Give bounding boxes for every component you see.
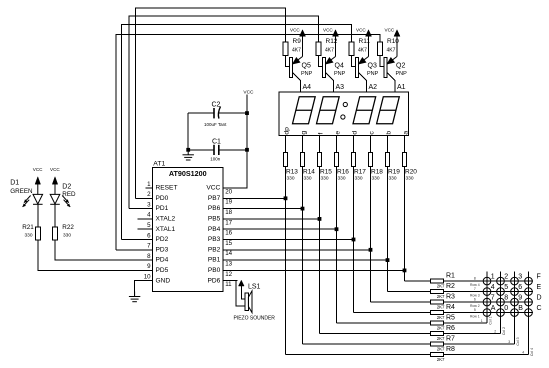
wire collector Q4 to display pin A3 <box>325 73 333 93</box>
svg-text:2K7: 2K7 <box>437 315 445 320</box>
junction PB1 <box>386 258 390 262</box>
svg-text:14: 14 <box>225 250 232 257</box>
junction PB4 <box>335 227 339 231</box>
capacitor C1 100n <box>188 149 213 151</box>
svg-text:330: 330 <box>304 175 312 181</box>
svg-text:20: 20 <box>225 188 232 195</box>
svg-text:R8: R8 <box>446 346 455 353</box>
svg-text:1: 1 <box>147 181 151 188</box>
svg-text:2: 2 <box>494 329 496 333</box>
svg-text:5: 5 <box>474 308 476 312</box>
svg-text:330: 330 <box>63 232 71 238</box>
svg-text:PB1: PB1 <box>208 257 221 264</box>
svg-text:R15: R15 <box>320 168 332 175</box>
svg-text:VCC: VCC <box>290 28 300 33</box>
svg-text:330: 330 <box>406 175 414 181</box>
svg-text:R3: R3 <box>446 294 455 301</box>
wire collector Q2 to display pin A1 <box>387 73 395 93</box>
svg-text:8: 8 <box>474 276 476 280</box>
svg-text:D: D <box>537 295 542 302</box>
wire display segment b down <box>387 136 389 153</box>
svg-text:Row 1: Row 1 <box>470 314 480 318</box>
wire GND pin 10 <box>135 281 153 297</box>
svg-text:VCC: VCC <box>33 167 43 172</box>
junction C1-VCC <box>245 148 249 152</box>
svg-text:18: 18 <box>225 209 232 216</box>
switch key 7 <box>483 298 491 306</box>
resistor R17 330 <box>351 153 355 167</box>
svg-text:GREEN: GREEN <box>10 188 33 195</box>
resistor R3 2K7 <box>430 300 443 304</box>
svg-text:a: a <box>403 131 410 135</box>
svg-text:13: 13 <box>225 261 232 268</box>
digit 8 outline <box>317 97 340 124</box>
wire display segment a down <box>404 136 406 153</box>
svg-text:10: 10 <box>144 274 151 281</box>
svg-text:3: 3 <box>508 340 510 344</box>
switch key 4 <box>483 288 491 296</box>
svg-text:2K7: 2K7 <box>437 336 445 341</box>
resistor R22 330 <box>53 227 58 240</box>
pin 4 XTAL2 <box>138 218 153 220</box>
wire PB7 to segment line <box>238 197 286 199</box>
wire PD3 (pin) to base resistor <box>116 249 153 251</box>
svg-text:5: 5 <box>147 222 151 229</box>
svg-text:R16: R16 <box>337 168 349 175</box>
svg-text:17: 17 <box>225 219 232 226</box>
svg-text:2K7: 2K7 <box>437 347 445 352</box>
svg-text:PB6: PB6 <box>208 205 221 212</box>
svg-text:VCC: VCC <box>206 185 220 192</box>
resistor R11 4K7 <box>349 42 354 56</box>
svg-text:C1: C1 <box>212 139 221 146</box>
resistor R21 330 <box>35 227 40 240</box>
svg-text:4K7: 4K7 <box>358 47 367 53</box>
resistor R19 330 <box>385 153 389 167</box>
svg-text:2K7: 2K7 <box>437 305 445 310</box>
svg-text:330: 330 <box>389 175 397 181</box>
svg-text:C: C <box>537 305 542 312</box>
wire R12 to base of Q4 <box>319 56 323 67</box>
wire D1 to R21 <box>37 204 39 227</box>
svg-text:PD2: PD2 <box>156 236 169 243</box>
pin 10 GND <box>138 280 153 282</box>
svg-text:VCC: VCC <box>323 28 333 33</box>
svg-text:R14: R14 <box>303 168 315 175</box>
svg-text:6: 6 <box>518 284 522 291</box>
wire keypad column 1 <box>444 322 488 324</box>
svg-text:6: 6 <box>474 297 476 301</box>
svg-text:PIEZO SOUNDER: PIEZO SOUNDER <box>234 316 276 322</box>
svg-text:R13: R13 <box>286 168 298 175</box>
wire display segment dp down <box>285 136 287 153</box>
svg-text:Col 2: Col 2 <box>502 327 506 335</box>
svg-text:B: B <box>518 305 523 312</box>
LED D2 RED <box>50 194 60 204</box>
pin 16 PB4 <box>223 228 238 230</box>
svg-text:e: e <box>335 131 342 135</box>
resistor R10 4K7 <box>378 42 383 56</box>
junction PB6 <box>301 207 305 211</box>
svg-text:GND: GND <box>156 277 171 284</box>
pin 3 PD1 <box>138 208 153 210</box>
svg-text:5: 5 <box>504 284 508 291</box>
svg-text:PB7: PB7 <box>208 195 221 202</box>
wire R17 to PB3 and keypad <box>353 167 355 313</box>
svg-text:Q2: Q2 <box>396 63 405 70</box>
svg-text:R5: R5 <box>446 315 455 322</box>
svg-text:b: b <box>386 131 393 135</box>
transistor Q3 PNP <box>356 58 359 78</box>
svg-text:Q4: Q4 <box>335 63 344 70</box>
wire R9 to base of Q5 <box>286 56 290 67</box>
wire display segment e down <box>336 136 338 153</box>
svg-text:R1: R1 <box>446 273 455 280</box>
resistor R9 4K7 <box>283 42 288 56</box>
wire collector Q5 to display pin A4 <box>292 73 300 93</box>
svg-text:A2: A2 <box>369 84 378 91</box>
svg-text:2K7: 2K7 <box>437 326 445 331</box>
pin 2 PD0 <box>138 197 153 199</box>
wire display segment d down <box>353 136 355 153</box>
junction C2-VCC <box>245 111 249 115</box>
svg-text:f: f <box>318 133 325 135</box>
resistor R12 4K7 <box>316 42 321 56</box>
svg-text:330: 330 <box>321 175 329 181</box>
switch key F <box>525 277 533 285</box>
svg-text:A4: A4 <box>303 84 312 91</box>
LED D1 GREEN <box>33 194 43 204</box>
svg-text:PD3: PD3 <box>156 246 169 253</box>
power VCC for piezo <box>239 280 245 286</box>
wire R21 to MCU <box>38 240 153 271</box>
wire PD6 to piezo <box>223 281 245 306</box>
wire PB6 to segment line <box>238 208 303 210</box>
wire display segment c down <box>370 136 372 153</box>
pin 15 PB3 <box>223 239 238 241</box>
wire R11 to base of Q3 <box>352 56 356 67</box>
svg-text:19: 19 <box>225 199 232 206</box>
wire C2 to C1/ground <box>187 113 189 150</box>
svg-text:A1: A1 <box>397 84 406 91</box>
svg-text:PB5: PB5 <box>208 216 221 223</box>
svg-text:PD1: PD1 <box>156 205 169 212</box>
capacitor C2 100uF Tant <box>188 112 213 114</box>
switch key 9 <box>511 298 519 306</box>
svg-text:PD6: PD6 <box>207 277 220 284</box>
wire keypad row 4 <box>444 312 534 314</box>
svg-text:R18: R18 <box>371 168 383 175</box>
svg-text:PB4: PB4 <box>208 226 221 233</box>
pin 7 PD3 <box>138 249 153 251</box>
pin 14 PB2 <box>223 249 238 251</box>
svg-text:1: 1 <box>481 319 483 323</box>
svg-text:7: 7 <box>474 287 476 291</box>
svg-text:8: 8 <box>147 253 151 260</box>
svg-text:R4: R4 <box>446 304 455 311</box>
wire PD0 (pin) to base resistor <box>136 197 153 199</box>
svg-text:g: g <box>301 131 308 135</box>
wire R18 to PB2 and keypad <box>370 167 372 303</box>
svg-text:100n: 100n <box>210 156 221 161</box>
svg-text:RED: RED <box>62 191 76 198</box>
wire R13 to PB7 and keypad <box>285 167 287 355</box>
ground near C1 <box>187 150 189 155</box>
svg-text:F: F <box>537 274 541 281</box>
piezo sounder LS1 <box>245 293 248 310</box>
svg-text:c: c <box>369 131 376 135</box>
wire PB5 to segment line <box>238 218 320 220</box>
pin 17 PB5 <box>223 218 238 220</box>
svg-text:AT90S1200: AT90S1200 <box>169 169 207 178</box>
svg-text:0: 0 <box>504 305 508 312</box>
transistor Q4 PNP <box>323 58 326 78</box>
svg-text:D1: D1 <box>10 180 19 187</box>
svg-text:2K7: 2K7 <box>437 357 445 362</box>
wire R14 to PB6 and keypad <box>302 167 304 345</box>
resistor R16 330 <box>334 153 338 167</box>
resistor R20 330 <box>402 153 406 167</box>
pin 20 VCC <box>223 187 238 189</box>
pin 5 XTAL1 <box>138 228 153 230</box>
junction PB5 <box>318 217 322 221</box>
pin 11 PD6 <box>223 280 238 282</box>
wire R16 to PB4 and keypad <box>336 167 338 324</box>
svg-text:4: 4 <box>147 212 151 219</box>
svg-text:12: 12 <box>225 271 232 278</box>
wire display segment g down <box>302 136 304 153</box>
svg-text:PD5: PD5 <box>156 267 169 274</box>
svg-text:R20: R20 <box>405 168 417 175</box>
svg-text:330: 330 <box>25 232 33 238</box>
pin 9 PD5 <box>138 269 153 271</box>
svg-text:R22: R22 <box>62 224 74 231</box>
resistor R13 330 <box>283 153 287 167</box>
svg-text:D2: D2 <box>62 183 71 190</box>
svg-text:VCC: VCC <box>356 28 366 33</box>
svg-text:PD0: PD0 <box>156 195 169 202</box>
switch key B <box>511 309 519 317</box>
switch key 8 <box>497 298 505 306</box>
resistor R4 2K7 <box>430 311 443 315</box>
resistor R14 330 <box>300 153 304 167</box>
svg-text:330: 330 <box>355 175 363 181</box>
resistor R15 330 <box>317 153 321 167</box>
wire R10 to base of Q2 <box>380 56 384 67</box>
switch key 2 <box>497 277 505 285</box>
switch key 6 <box>511 288 519 296</box>
wire R15 to PB5 and keypad <box>319 167 321 334</box>
svg-text:6: 6 <box>147 232 151 239</box>
junction PB2 <box>369 248 373 252</box>
svg-text:XTAL2: XTAL2 <box>156 216 176 223</box>
svg-text:4: 4 <box>522 350 524 354</box>
resistor R18 330 <box>368 153 372 167</box>
svg-text:1: 1 <box>491 274 495 281</box>
junction ground <box>186 148 190 152</box>
pin 1 RESET <box>145 187 152 189</box>
svg-text:d: d <box>352 131 359 135</box>
digit 8 outline <box>377 97 400 124</box>
svg-text:PNP: PNP <box>334 71 346 77</box>
svg-text:4: 4 <box>491 284 495 291</box>
svg-text:VCC: VCC <box>385 28 395 33</box>
svg-text:R2: R2 <box>446 283 455 290</box>
svg-text:R17: R17 <box>354 168 366 175</box>
svg-text:PD4: PD4 <box>156 257 169 264</box>
wire D2 to R22 <box>54 204 56 227</box>
svg-text:2K7: 2K7 <box>437 284 445 289</box>
svg-text:PB0: PB0 <box>208 267 221 274</box>
wire PB0 to segment line <box>238 269 405 271</box>
svg-text:A3: A3 <box>336 84 345 91</box>
wire PB1 to segment line <box>238 259 388 261</box>
svg-text:16: 16 <box>225 230 232 237</box>
ground MCU <box>134 292 136 297</box>
svg-text:PNP: PNP <box>367 71 379 77</box>
svg-text:330: 330 <box>338 175 346 181</box>
svg-text:9: 9 <box>147 263 151 270</box>
svg-text:VCC: VCC <box>50 167 60 172</box>
svg-text:dp: dp <box>284 127 291 135</box>
switch key D <box>525 298 533 306</box>
svg-text:4K7: 4K7 <box>325 47 334 53</box>
svg-text:7: 7 <box>491 295 495 302</box>
resistor R7 2K7 <box>430 342 443 346</box>
svg-text:LS1: LS1 <box>248 284 261 291</box>
wire keypad row 1 <box>444 280 534 282</box>
svg-text:11: 11 <box>225 281 232 288</box>
wire PB3 to segment line <box>238 239 354 241</box>
transistor Q2 PNP <box>384 58 387 78</box>
svg-text:330: 330 <box>287 175 295 181</box>
switch key C <box>525 309 533 317</box>
switch key E <box>525 288 533 296</box>
svg-text:2K7: 2K7 <box>437 294 445 299</box>
svg-text:8: 8 <box>504 295 508 302</box>
switch key 3 <box>511 277 519 285</box>
switch key 5 <box>497 288 505 296</box>
switch key 1 <box>483 277 491 285</box>
svg-text:3: 3 <box>147 201 151 208</box>
svg-text:7: 7 <box>147 243 151 250</box>
svg-text:4K7: 4K7 <box>387 47 396 53</box>
wire PD2 (pin) to base resistor <box>122 239 153 241</box>
colon dots <box>343 102 347 106</box>
pin 19 PB7 <box>223 197 238 199</box>
svg-text:3: 3 <box>518 274 522 281</box>
svg-text:C2: C2 <box>212 101 221 108</box>
svg-text:E: E <box>537 284 542 291</box>
svg-text:Col 3: Col 3 <box>516 337 520 345</box>
IC U AT1 AT90S1200 <box>153 168 224 292</box>
svg-text:Col 1: Col 1 <box>489 316 493 324</box>
svg-text:R9: R9 <box>293 38 302 45</box>
svg-text:330: 330 <box>372 175 380 181</box>
resistor R5 2K7 <box>430 321 443 325</box>
pin 18 PB6 <box>223 208 238 210</box>
wire collector Q3 to display pin A2 <box>358 73 366 93</box>
wire PD1 (pin) to base resistor <box>129 208 152 210</box>
svg-text:R7: R7 <box>446 336 455 343</box>
svg-text:Q3: Q3 <box>368 63 377 70</box>
svg-text:4K7: 4K7 <box>292 47 301 53</box>
resistor R8 2K7 <box>430 353 443 357</box>
svg-text:R6: R6 <box>446 325 455 332</box>
svg-text:PB3: PB3 <box>208 236 221 243</box>
switch key A <box>483 309 491 317</box>
pin 12 PB0 <box>223 269 238 271</box>
wire R20 to PB0 and keypad <box>404 167 406 282</box>
display 4-digit 7-segment block <box>279 92 409 136</box>
svg-text:9: 9 <box>518 295 522 302</box>
svg-text:Q5: Q5 <box>302 63 311 70</box>
wire keypad column 2 <box>444 333 501 335</box>
svg-text:A: A <box>491 305 496 312</box>
transistor Q5 PNP <box>290 58 293 78</box>
junction PB3 <box>352 238 356 242</box>
svg-text:R21: R21 <box>22 224 34 231</box>
pin 6 PD2 <box>138 239 153 241</box>
resistor R6 2K7 <box>430 332 443 336</box>
resistor R1 2K7 <box>430 279 443 283</box>
wire keypad column 4 <box>444 354 529 356</box>
svg-text:AT1: AT1 <box>153 160 165 167</box>
wire R22 to MCU <box>55 240 153 260</box>
svg-text:100uF Tant: 100uF Tant <box>204 122 227 127</box>
pin 8 PD4 <box>138 259 153 261</box>
wire keypad column 3 <box>444 343 515 345</box>
svg-text:XTAL1: XTAL1 <box>156 226 176 233</box>
wire display segment f down <box>319 136 321 153</box>
wire PB4 to segment line <box>238 228 337 230</box>
switch key 0 <box>497 309 505 317</box>
svg-text:PNP: PNP <box>396 71 408 77</box>
wire R19 to PB1 and keypad <box>387 167 389 292</box>
junction PB7 <box>284 196 288 200</box>
svg-text:RESET: RESET <box>156 185 178 192</box>
wire keypad row 2 <box>444 291 534 293</box>
pin 13 PB1 <box>223 259 238 261</box>
wire PB2 to segment line <box>238 249 371 251</box>
svg-text:PNP: PNP <box>301 71 313 77</box>
svg-text:VCC: VCC <box>243 90 254 96</box>
svg-text:2: 2 <box>504 274 508 281</box>
svg-text:Col 4: Col 4 <box>530 348 534 356</box>
svg-text:2: 2 <box>147 191 151 198</box>
junction PB0 <box>403 269 407 273</box>
digit 8 outline <box>293 97 316 124</box>
resistor R2 2K7 <box>430 290 443 294</box>
wire keypad row 3 <box>444 301 534 303</box>
svg-text:R19: R19 <box>388 168 400 175</box>
svg-text:15: 15 <box>225 240 232 247</box>
svg-text:PB2: PB2 <box>208 246 221 253</box>
digit 8 outline <box>353 97 376 124</box>
